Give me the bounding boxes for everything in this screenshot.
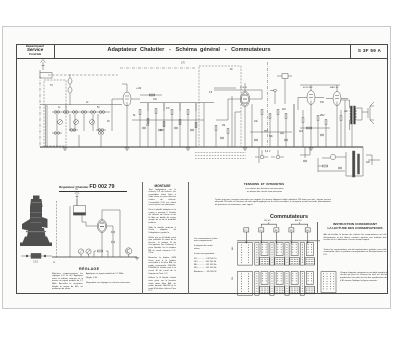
wire: dashed below bus (195, 153, 246, 159)
switch grid S3a lower (275, 258, 285, 265)
wire: power section (322, 147, 380, 176)
wire: panel input (70, 199, 77, 257)
resistor R15 (317, 116, 319, 121)
jack J2 (271, 150, 284, 159)
switch box K5 (305, 228, 310, 232)
switch grid S4a (285, 243, 298, 266)
wire: drops left section (47, 105, 101, 147)
wire: panel tube leads (82, 210, 120, 257)
transformer T1 (350, 106, 357, 124)
capacitor C11 (303, 160, 307, 162)
shield box left coil (44, 80, 66, 146)
wire: V2 leads (216, 83, 262, 147)
wire: screen divider dash-dot (267, 62, 269, 147)
trimmer CV1 (58, 120, 63, 125)
switch grid S4a lower (290, 258, 300, 265)
wire: panel right drop (112, 226, 114, 257)
wire: box drops (246, 232, 307, 241)
resistor R17 (322, 165, 327, 167)
switch grid S1a (238, 243, 253, 266)
separator rule 3 (316, 222, 319, 294)
coil L4 (81, 111, 86, 114)
INSTRUCTION title (322, 223, 388, 230)
capacitor C20 (111, 231, 115, 233)
instruction paragraph 2 (324, 249, 387, 257)
wire: drops mid (140, 103, 204, 147)
wire: commutator header line (237, 240, 320, 242)
header title (99, 47, 279, 53)
coil L6 (99, 111, 104, 114)
wire: mid rail 2 (140, 102, 214, 104)
ground G10 (135, 258, 139, 260)
resistor R7 (187, 110, 189, 115)
switch grid S5a (300, 243, 313, 266)
svg-text:FM: FM (232, 277, 234, 280)
ground G3 (186, 148, 190, 150)
resistor R3 (155, 109, 157, 114)
switch grid S2b lower (260, 286, 270, 293)
capacitor C6 (264, 130, 268, 132)
jack J1 (255, 150, 268, 159)
resistor R6 (179, 120, 181, 125)
switch grid S3a (270, 243, 283, 266)
illustration: regulator device photo (20, 196, 52, 247)
switch grid S5a lower (305, 258, 315, 265)
tensions paragraph (215, 199, 331, 207)
tube V4 (333, 92, 341, 106)
panel antenna (75, 191, 79, 199)
switch grid S3b (270, 271, 283, 295)
capacitor C12 (254, 139, 258, 141)
separator rule 2 (187, 182, 190, 294)
wire: left vertical feed (39, 70, 41, 147)
capacitor C9 (filter, dark) (353, 151, 360, 177)
tube V3 (307, 91, 315, 105)
Commutateurs title (263, 214, 315, 220)
switch grid S1b (238, 271, 253, 295)
switch grid S2a lower (260, 258, 270, 265)
switch grid S4b lower (290, 286, 300, 293)
capacitor C2 (158, 129, 162, 131)
fuse S10 (21, 253, 52, 258)
trimmer CV2 (74, 120, 79, 125)
switch grid S5b lower (305, 286, 315, 293)
coil L7 (54, 132, 59, 135)
switch grid S2b (255, 271, 268, 295)
node A (270, 89, 276, 104)
transistor Q10 (126, 248, 132, 257)
connector P1 (277, 74, 292, 105)
switch box K3 (274, 228, 279, 232)
montage text column (149, 189, 177, 294)
label 3 10 (33, 187, 78, 264)
wire: misc right lower (318, 155, 372, 172)
resistor R2 (147, 119, 149, 124)
wire: panel bus (52, 256, 137, 258)
wire: row A link (52, 111, 110, 113)
wire: left mid rail (40, 104, 122, 106)
rectifier D1 (330, 154, 335, 159)
coil box panel (74, 199, 86, 222)
svg-text:FM 505: FM 505 (264, 220, 272, 222)
wire: row B link (52, 130, 106, 133)
header ref number (351, 48, 388, 53)
wire: V1 leads (112, 84, 140, 147)
capacitor C10 (338, 167, 342, 169)
réglage right column (86, 273, 136, 285)
resistor R13 (277, 110, 279, 115)
coil L1 (54, 111, 59, 114)
capacitor C5 (220, 137, 224, 139)
document frame (16, 44, 388, 295)
instruction paragraph 1 (324, 234, 387, 242)
resistor R16 (325, 120, 327, 125)
réglage left column (52, 273, 83, 291)
wire: left vertical 2 (45, 105, 47, 147)
capacitor C8 (320, 134, 324, 136)
TENSIONS title (214, 182, 314, 186)
wire: mid low rail (132, 119, 204, 121)
tube V2 (240, 91, 249, 106)
coil L8 (70, 129, 75, 132)
wire: grid drops (246, 241, 307, 244)
separator rule 1 (141, 182, 144, 294)
capacitor C7 (280, 132, 284, 134)
resistor R11 (261, 110, 263, 115)
wire: extra verticals (70, 96, 294, 147)
coil L9 (98, 129, 103, 132)
tensions subtitle lines (214, 188, 315, 194)
ground G1 (63, 148, 67, 150)
ground G4 (243, 148, 247, 150)
resistor R21 (306, 127, 311, 129)
left panel title (59, 184, 129, 190)
micro labels schematic (50, 63, 371, 164)
ground G5 (309, 148, 313, 150)
wire: top rail right (300, 84, 340, 86)
switch box K4 (289, 228, 294, 232)
wire: bus risers (94, 240, 120, 257)
tube V1 (123, 92, 131, 106)
shield box FM (199, 66, 241, 147)
resistor R12 (269, 114, 271, 119)
switch grid S3b lower (275, 286, 285, 293)
switch box K1 (244, 228, 249, 232)
resistor R18 (302, 118, 304, 123)
instruction paragraph 3 (340, 272, 388, 283)
capacitor C3 (174, 127, 178, 129)
antenna (41, 60, 46, 71)
header divider right (350, 44, 351, 59)
coil L5 (90, 111, 95, 114)
trimmer CV10 (78, 249, 83, 257)
header band bottom rule (16, 58, 388, 59)
wire: top dash-dot mid (120, 67, 196, 69)
wire: mid top rail (214, 90, 262, 99)
commutateurs left text (194, 238, 235, 274)
resistor R4 (163, 122, 165, 127)
wire: top rail left dashed (48, 74, 118, 76)
wire: panel dashed vertical (56, 201, 58, 258)
wire: drops sec3 (262, 104, 294, 147)
resistor R20 (97, 250, 102, 252)
capacitor C21 (111, 241, 115, 243)
resistor R19 (340, 116, 342, 121)
resistor R22 (149, 94, 154, 96)
MONTAGE title (149, 184, 176, 188)
wire: drops R18 R19 (303, 110, 341, 147)
wire: power drops (300, 147, 345, 171)
trimmer CV3 (90, 120, 95, 125)
wire: drops sec4 (318, 100, 345, 147)
wire: speaker link (362, 102, 374, 124)
resistor R1 (139, 110, 141, 115)
resistor R8 (195, 123, 197, 128)
ground G2 (125, 148, 129, 150)
arrowheads (245, 242, 308, 244)
header divider left (54, 44, 55, 59)
switch grid S4b (285, 271, 298, 295)
tube V10 (panel) (97, 220, 106, 233)
box TC top-left (40, 73, 52, 79)
legend grid (instruction) (321, 272, 336, 293)
wire: below-bus vertical (258, 147, 260, 163)
IF can left (68, 74, 72, 105)
bracket FM (261, 222, 276, 226)
bracket AM (291, 222, 307, 226)
trimmer CV11 (86, 249, 91, 257)
RÉGLAGE title (79, 267, 99, 271)
switch box K2 (259, 228, 264, 232)
capacitor C4 (190, 129, 194, 131)
coil L2 (63, 111, 68, 114)
resistor R14 (285, 114, 287, 119)
wire: extra horizontals (140, 88, 330, 132)
capacitor C13 (284, 139, 288, 141)
resistor R5 (171, 110, 173, 115)
coil L11 (98, 132, 103, 135)
switch grid S5b (300, 271, 313, 295)
wire: T1 leads (341, 100, 362, 147)
wire: V3 leads (298, 85, 324, 147)
resistor R10 (227, 129, 229, 134)
wire: drops V2 (216, 112, 241, 147)
capacitor C1 (142, 127, 146, 129)
coil L3 (72, 111, 77, 114)
switch grid S2a (255, 243, 268, 266)
wire: bottom bus (40, 146, 363, 148)
resistor R9 (215, 126, 217, 131)
header left box text (17, 45, 53, 57)
wire: V4 leads (326, 85, 348, 147)
